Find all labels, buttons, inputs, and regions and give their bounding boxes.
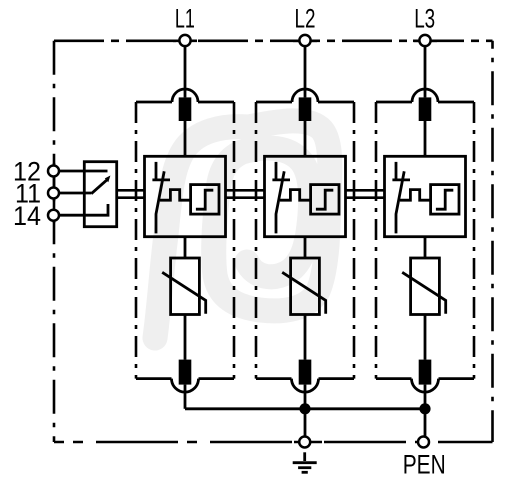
svg-text:L2: L2 xyxy=(295,4,316,34)
svg-text:L1: L1 xyxy=(175,4,195,34)
svg-text:PEN: PEN xyxy=(403,450,446,480)
svg-text:L3: L3 xyxy=(414,4,435,34)
svg-text:14: 14 xyxy=(13,201,41,231)
